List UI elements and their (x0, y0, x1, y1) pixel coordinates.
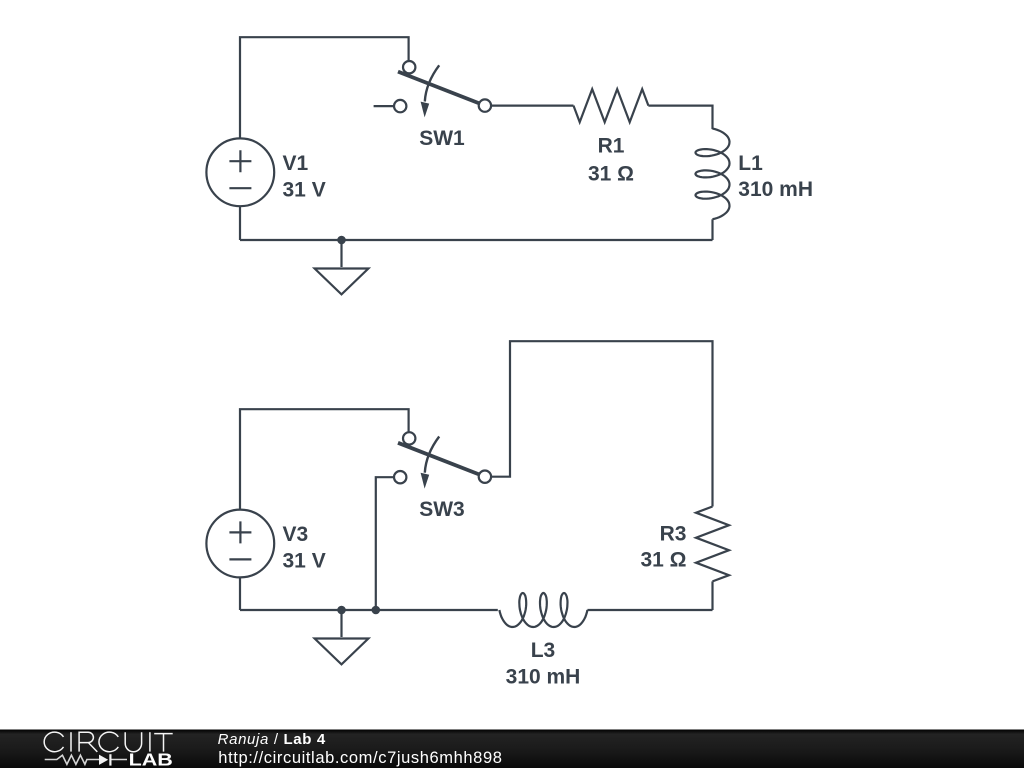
svg-text:31 Ω: 31 Ω (640, 548, 686, 571)
label R3 value (640, 522, 686, 571)
wire SW3 right up and over to R3 (491, 341, 713, 506)
svg-text:V1: V1 (283, 152, 309, 175)
ground circuit 1 (315, 240, 369, 294)
svg-text:SW1: SW1 (419, 127, 465, 150)
svg-text:31 V: 31 V (283, 550, 326, 573)
svg-text:Ranuja / Lab 4: Ranuja / Lab 4 (218, 731, 326, 748)
switch SW1 (374, 61, 491, 117)
CircuitLab logo CIRCUIT wordmark (44, 732, 173, 752)
svg-text:R1: R1 (598, 134, 625, 157)
svg-text:L1: L1 (738, 152, 763, 175)
ground circuit 2 (315, 610, 369, 664)
label SW3 (419, 498, 465, 521)
label V1 value (283, 152, 326, 201)
resistor R1 (574, 89, 649, 122)
footer title Ranuja / Lab 4 (218, 731, 326, 748)
wire SW1 to R1 (491, 104, 574, 106)
junction node circuit 1 (337, 236, 346, 245)
inductor L1 (696, 129, 730, 220)
wire R1 to L1 corner (648, 106, 712, 130)
voltage source V1 (206, 138, 274, 206)
svg-text:31 Ω: 31 Ω (588, 162, 634, 185)
svg-text:310 mH: 310 mH (506, 666, 581, 689)
wire bottom rail circuit 1 (240, 239, 713, 241)
CircuitLab logo resistor-diode glyph (45, 754, 127, 765)
label V3 value (283, 523, 326, 572)
voltage source V3 (206, 510, 274, 578)
wire V3 bottom (239, 577, 241, 610)
wire V1 bottom (239, 206, 241, 240)
switch SW3 (394, 432, 491, 488)
junction node ground circuit 2 (337, 606, 346, 615)
svg-text:LAB: LAB (129, 750, 173, 768)
footer bar (0, 730, 1024, 768)
svg-text:31 V: 31 V (283, 178, 326, 201)
label R1 value (588, 134, 634, 185)
wire L1 to bottom rail (711, 219, 713, 240)
wire SW3 left throw down (376, 477, 394, 610)
svg-text:http://circuitlab.com/c7jush6m: http://circuitlab.com/c7jush6mhh898 (218, 749, 502, 767)
wire R3 to bottom rail (711, 581, 713, 610)
svg-text:SW3: SW3 (419, 498, 465, 521)
svg-text:L3: L3 (531, 639, 556, 662)
svg-text:R3: R3 (660, 522, 687, 545)
label L3 value (506, 639, 581, 689)
footer url (218, 749, 502, 767)
junction node switch throw circuit 2 (372, 606, 381, 615)
wire V3 top rail to SW3 (240, 409, 409, 509)
label SW1 (419, 127, 465, 150)
svg-text:310 mH: 310 mH (738, 178, 813, 201)
inductor L3 (499, 593, 587, 627)
wire bottom rail circuit 2 (240, 609, 713, 611)
resistor R3 (696, 507, 729, 582)
label L1 value (738, 152, 813, 201)
CircuitLab logo LAB wordmark (129, 750, 173, 768)
wire V1 top rail to SW1 (240, 37, 409, 138)
svg-text:V3: V3 (283, 523, 309, 546)
